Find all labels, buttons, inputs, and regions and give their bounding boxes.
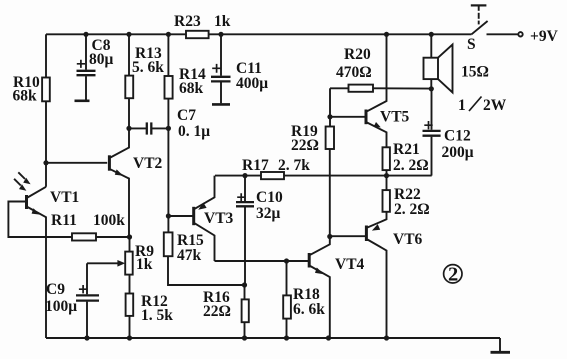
wire VT6 base lead [330, 235, 366, 237]
node R14 top [166, 32, 171, 37]
svg-text:80μ: 80μ [89, 51, 114, 68]
svg-text:S: S [467, 36, 476, 53]
svg-text:2. 2Ω: 2. 2Ω [394, 201, 430, 218]
svg-text:0. 1μ: 0. 1μ [178, 123, 210, 140]
node VT5 base junction [327, 114, 332, 119]
node R12 bottom [127, 335, 132, 340]
transistor VT3 (PNP) [194, 176, 215, 261]
svg-text:2W: 2W [483, 97, 507, 114]
capacitor C11 [211, 34, 231, 104]
node speaker/C12/R20 junction [429, 86, 434, 91]
wire top rail left segment [46, 33, 186, 35]
svg-text:1: 1 [458, 97, 466, 114]
wire R10 bottom to VT1 collector [45, 101, 47, 187]
wire R13 top [128, 34, 130, 75]
resistor R21 [383, 147, 390, 175]
svg-text:VT5: VT5 [380, 109, 410, 126]
resistor R18 [283, 295, 291, 318]
wire VT2 base lead [46, 162, 107, 164]
light arrows [14, 172, 31, 191]
node VT3 base junction [166, 213, 171, 218]
svg-text:47k: 47k [177, 247, 202, 264]
wire R16 bottom [244, 322, 246, 338]
svg-text:5. 6k: 5. 6k [132, 59, 164, 76]
svg-text:15Ω: 15Ω [461, 64, 489, 81]
wire R12 bottom [129, 316, 131, 338]
node R16 top junction [242, 282, 247, 287]
svg-text:1k: 1k [136, 256, 153, 273]
resistor R9 (with wiper) [87, 252, 133, 275]
wire R9 top [129, 237, 131, 252]
transistor VT5 [366, 34, 387, 147]
node R16 bottom [242, 335, 247, 340]
wire top rail right segment [209, 33, 472, 35]
resistor R13 [125, 76, 133, 99]
switch S [471, 5, 523, 36]
svg-text:68k: 68k [179, 80, 204, 97]
label speaker slash [469, 97, 482, 112]
ground [491, 338, 511, 352]
svg-text:2: 2 [448, 264, 458, 286]
svg-text:1k: 1k [214, 13, 231, 30]
resistor R17 [261, 172, 284, 179]
svg-text:6. 6k: 6. 6k [293, 301, 325, 318]
wire R9 to R12 [129, 275, 131, 294]
wire VT1 emitter down [45, 217, 47, 339]
capacitor C10 [236, 176, 254, 285]
node VT6 collector bottom [384, 335, 389, 340]
resistor R11 [72, 233, 96, 240]
wire R14 bottom to VT3 base [167, 99, 169, 233]
wire R18 bottom [286, 319, 288, 338]
svg-text:400μ: 400μ [236, 75, 268, 92]
svg-text:VT2: VT2 [133, 155, 163, 172]
node R18 bottom [284, 335, 289, 340]
svg-text:68k: 68k [13, 88, 38, 105]
resistor R16 [242, 299, 249, 322]
node C11 top [218, 32, 223, 37]
capacitor C12 [423, 89, 441, 176]
capacitor C8 [75, 34, 96, 101]
wire R16 top [244, 285, 246, 299]
resistor R15 [164, 232, 173, 256]
svg-text:100k: 100k [93, 212, 125, 229]
transistor VT4 [309, 237, 330, 339]
node VT2 base junction [43, 160, 48, 165]
wire VT3 collector to VT4 base [215, 260, 309, 262]
transistor VT2 [109, 128, 129, 237]
wire R20 left corner down to VT5 base [329, 88, 331, 117]
wire R19 bottom to VT6 base node [329, 149, 331, 237]
svg-text:200μ: 200μ [442, 144, 474, 161]
speaker [424, 34, 453, 92]
svg-text:R21: R21 [393, 141, 420, 158]
wire left column upper [45, 34, 47, 77]
resistor R14 [165, 76, 173, 99]
svg-text:1. 5k: 1. 5k [141, 307, 173, 324]
wire VT3 base lead [168, 215, 193, 217]
resistor R20 [330, 85, 431, 92]
svg-text:22Ω: 22Ω [203, 303, 231, 320]
capacitor C9 [76, 263, 99, 338]
node C9 bottom [84, 335, 89, 340]
svg-text:22Ω: 22Ω [291, 137, 319, 154]
wire R13 bottom [128, 98, 130, 128]
node C7 right [166, 126, 171, 131]
wire VT5 base lead [330, 116, 365, 118]
svg-text:470Ω: 470Ω [336, 64, 372, 81]
svg-text:C10: C10 [256, 189, 283, 206]
transistor VT6 (PNP) [366, 212, 386, 338]
node R18 top [284, 258, 289, 263]
wire R18 top [286, 261, 288, 295]
svg-text:C9: C9 [46, 281, 65, 298]
node R21/R22 junction [384, 173, 389, 178]
resistor R12 [126, 294, 134, 316]
wire R17 line [215, 175, 261, 177]
node C8 top [83, 32, 88, 37]
wire R17 to C12 corner [284, 175, 432, 177]
transistor VT1 [8, 187, 72, 237]
svg-text:VT3: VT3 [204, 210, 234, 227]
svg-text:2. 7k: 2. 7k [278, 157, 310, 174]
node VT5 collector rail [384, 32, 389, 37]
svg-text:VT6: VT6 [393, 231, 423, 248]
node VT4 emitter bottom [326, 335, 331, 340]
capacitor C7 [129, 122, 168, 134]
wire R11 to node [96, 236, 130, 238]
svg-text:100μ: 100μ [45, 298, 77, 315]
node C7 left [126, 126, 131, 131]
wire R19 top [329, 117, 331, 127]
svg-text:R11: R11 [51, 212, 77, 229]
svg-text:VT4: VT4 [335, 256, 365, 273]
node C10 top [242, 173, 247, 178]
svg-text:C7: C7 [177, 107, 196, 124]
svg-text:R23: R23 [174, 13, 201, 30]
node speaker top [429, 32, 434, 37]
resistor R10 [42, 78, 50, 102]
svg-text:R20: R20 [344, 46, 371, 63]
node VT6 base junction [327, 234, 332, 239]
svg-text:32μ: 32μ [256, 205, 281, 222]
resistor R23 [186, 31, 209, 38]
wire bottom rail [46, 337, 500, 339]
svg-text:+9V: +9V [530, 28, 559, 45]
resistor R22 [383, 176, 390, 212]
svg-text:VT1: VT1 [50, 189, 79, 206]
resistor R19 [326, 127, 334, 150]
circled number 2 [444, 265, 462, 283]
svg-text:2. 2Ω: 2. 2Ω [393, 157, 429, 174]
wire R14 top [167, 34, 169, 76]
svg-text:C12: C12 [444, 128, 471, 145]
node R11/R9/VT2e junction [127, 234, 132, 239]
svg-text:R17: R17 [242, 157, 269, 174]
node R13 top [126, 32, 131, 37]
wire R15 bottom [168, 256, 245, 285]
